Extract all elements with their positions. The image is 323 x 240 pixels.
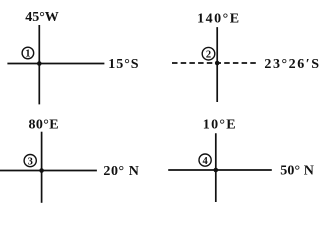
svg-text:140°E: 140°E: [197, 12, 240, 27]
wire vertical meridian 1: [38, 25, 40, 104]
svg-text:10°E: 10°E: [203, 117, 237, 132]
wire horizontal parallel 1: [7, 63, 104, 65]
node dot 3: [39, 168, 44, 173]
circled number 4: [199, 154, 211, 166]
node dot 2: [215, 61, 220, 66]
svg-text:15°S: 15°S: [108, 57, 139, 72]
circled number 2: [202, 47, 215, 60]
svg-text:23°26′S: 23°26′S: [264, 57, 320, 72]
wire dashed parallel 2: [172, 62, 257, 64]
wire horizontal parallel 3: [0, 170, 97, 172]
wire vertical meridian 4: [215, 133, 217, 202]
wire horizontal parallel 4: [168, 169, 272, 171]
circled number 3: [24, 155, 36, 167]
svg-text:50° N: 50° N: [280, 163, 314, 178]
svg-text:1: 1: [25, 49, 30, 60]
node dot 1: [37, 61, 42, 66]
svg-text:45°W: 45°W: [25, 10, 59, 25]
svg-text:80°E: 80°E: [29, 117, 60, 132]
svg-text:20° N: 20° N: [103, 164, 139, 179]
circled number 1: [22, 47, 34, 59]
wire vertical meridian 3: [41, 132, 43, 203]
node dot 4: [214, 168, 219, 173]
svg-text:4: 4: [202, 156, 208, 167]
wire vertical meridian 2: [216, 27, 218, 102]
svg-text:2: 2: [206, 49, 211, 60]
svg-text:3: 3: [28, 156, 33, 167]
